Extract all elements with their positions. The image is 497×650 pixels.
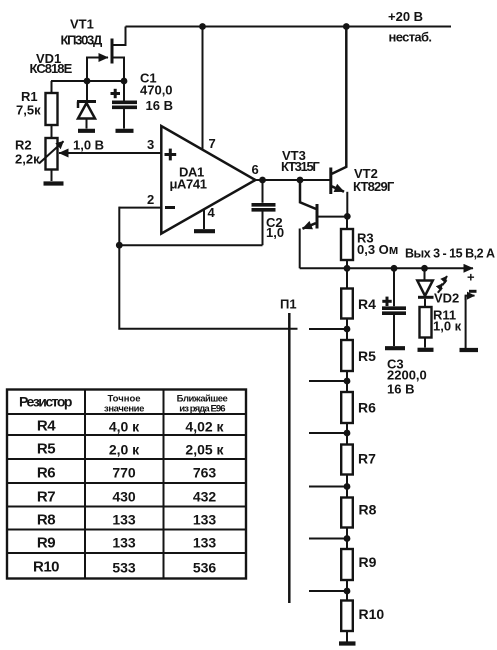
wire tap 1	[309, 328, 347, 330]
label R10	[359, 606, 385, 622]
label R4	[358, 296, 376, 312]
label R3	[357, 231, 374, 246]
svg-text:16 В: 16 В	[387, 382, 414, 397]
svg-text:КТ315Г: КТ315Г	[281, 159, 320, 174]
label VT1	[70, 17, 94, 32]
svg-text:1,0 В: 1,0 В	[73, 138, 104, 153]
label VT2	[354, 166, 378, 181]
svg-text:536: 536	[193, 560, 217, 576]
svg-text:R5: R5	[358, 348, 376, 364]
ground under R10	[339, 641, 356, 645]
wire tap 5	[309, 538, 347, 540]
value label uA741	[170, 176, 207, 191]
resistor R1	[46, 81, 58, 138]
value label 1,0	[266, 225, 284, 240]
node rail/VD2 junction	[421, 265, 428, 272]
table header Ближайшее из ряда Е96	[177, 394, 228, 415]
table row R6	[37, 465, 216, 482]
label R8	[359, 502, 377, 518]
label DA1	[179, 165, 204, 180]
svg-text:значение: значение	[104, 404, 144, 415]
value label 16 В (C3)	[387, 382, 414, 397]
svg-text:R6: R6	[358, 400, 376, 416]
node source/C1 junction	[121, 78, 128, 85]
svg-text:КП303Д: КП303Д	[61, 33, 103, 48]
value label 16 В	[146, 98, 173, 113]
ground under R2	[44, 181, 64, 185]
svg-text:2200,0: 2200,0	[387, 368, 427, 383]
label R11	[433, 308, 456, 323]
resistor R10	[341, 591, 353, 642]
svg-text:R4: R4	[37, 418, 56, 435]
label C1	[140, 71, 157, 86]
wire feedback down to switch	[119, 245, 297, 329]
resistor R5	[341, 329, 353, 381]
svg-text:133: 133	[112, 535, 136, 551]
svg-text:4,02 к: 4,02 к	[185, 419, 224, 435]
minus output terminal	[466, 291, 477, 348]
label R7	[358, 451, 376, 467]
label R1	[21, 89, 38, 104]
svg-text:R10: R10	[359, 606, 385, 622]
svg-text:из ряда Е96: из ряда Е96	[179, 404, 225, 415]
value label нестаб.	[389, 30, 432, 45]
svg-text:4: 4	[208, 205, 216, 220]
pin 6	[252, 162, 259, 177]
wire zener node rail	[51, 80, 124, 82]
label VD2	[434, 291, 459, 306]
op-amp DA1	[161, 126, 255, 234]
svg-text:R9: R9	[359, 554, 377, 570]
node rail/R4 junction	[344, 265, 351, 272]
svg-text:R6: R6	[37, 465, 55, 482]
svg-text:R7: R7	[358, 451, 376, 467]
svg-text:2: 2	[147, 192, 154, 207]
ground under VD1	[78, 129, 95, 133]
svg-text:133: 133	[112, 512, 136, 528]
ground under minus terminal	[460, 348, 479, 352]
value label +20 В	[388, 9, 423, 24]
table header Резистор	[19, 394, 72, 410]
svg-text:μA741: μA741	[170, 176, 207, 191]
table row R5	[37, 441, 225, 458]
svg-text:КС818Е: КС818Е	[30, 61, 73, 76]
node VT3 collector junction	[297, 177, 304, 184]
node tap R8/R9	[344, 535, 351, 542]
pin 7	[209, 136, 216, 151]
svg-text:R8: R8	[37, 512, 55, 529]
svg-text:Резистор: Резистор	[19, 394, 72, 410]
zener diode VD1	[77, 81, 96, 129]
capacitor C3	[382, 268, 406, 346]
wire +20V top rail	[126, 26, 452, 28]
value label КС818Е	[30, 61, 73, 76]
resistor R7	[341, 433, 353, 487]
svg-text:763: 763	[193, 465, 217, 481]
wire R2 wiper to pin 3	[59, 152, 161, 154]
capacitor C2	[252, 180, 276, 245]
label C3	[387, 357, 404, 372]
svg-text:4,0 к: 4,0 к	[109, 419, 140, 435]
transistor VT2	[331, 27, 348, 217]
label П1	[280, 297, 297, 312]
ground pin 4	[194, 229, 215, 233]
table row R9	[37, 535, 216, 552]
svg-text:7: 7	[209, 136, 216, 151]
svg-text:VT1: VT1	[70, 17, 94, 32]
svg-text:770: 770	[112, 465, 136, 481]
resistor R4	[341, 268, 353, 329]
svg-text:+20 В: +20 В	[388, 9, 423, 24]
svg-text:R2: R2	[15, 138, 32, 153]
svg-text:VD2: VD2	[434, 291, 459, 306]
node junction rail/VT2 collector	[343, 23, 350, 30]
value label 470,0	[140, 83, 173, 98]
node gate/VD1 junction	[84, 78, 91, 85]
label R2	[15, 138, 32, 153]
svg-text:2,2к: 2,2к	[15, 152, 40, 167]
LED VD2	[417, 268, 447, 297]
table row R4	[37, 418, 225, 435]
table resistor values	[7, 390, 246, 579]
value label 0,3 Ом	[357, 242, 398, 257]
wire feedback pin2 down	[118, 207, 120, 246]
resistor R2 (trimmer)	[39, 138, 64, 181]
value label 2200,0	[387, 368, 427, 383]
resistor R9	[341, 539, 353, 592]
switch П1 pole bar	[288, 313, 291, 603]
svg-text:1,0 к: 1,0 к	[433, 319, 462, 334]
node tap R4/R5	[344, 326, 351, 333]
svg-text:16 В: 16 В	[146, 98, 173, 113]
node pin6/C2 junction	[259, 177, 266, 184]
svg-text:нестаб.: нестаб.	[389, 30, 432, 45]
wire pin 6 to VT2 base	[255, 179, 330, 181]
svg-text:Вых 3 - 15 В,2 А: Вых 3 - 15 В,2 А	[405, 247, 495, 261]
resistor R8	[341, 487, 353, 539]
value label 7,5к	[16, 103, 41, 118]
svg-text:+: +	[467, 270, 475, 285]
svg-text:R5: R5	[37, 441, 55, 458]
ground under R11	[418, 348, 434, 352]
svg-text:КТ829Г: КТ829Г	[353, 179, 395, 194]
svg-text:R4: R4	[358, 296, 376, 312]
node tap R5/R6	[344, 378, 351, 385]
value label КТ315Г	[281, 159, 320, 174]
wire tap 6	[309, 590, 347, 592]
wire output rail	[300, 267, 473, 269]
pin 4	[208, 205, 216, 220]
ground under C3	[385, 346, 405, 350]
wire tap 2	[309, 380, 347, 382]
node tap R6/R7	[344, 430, 351, 437]
value label 1,0 к	[433, 319, 462, 334]
wire pin 2	[119, 207, 161, 209]
value label 1,0 В	[73, 138, 104, 153]
label + output	[467, 270, 475, 285]
value label КТ829Г	[353, 179, 395, 194]
node rail/C3 junction	[391, 265, 398, 272]
table row R7	[37, 489, 216, 506]
pin 3	[147, 137, 154, 152]
table header Точное значение	[104, 394, 144, 415]
label R5	[358, 348, 376, 364]
svg-text:470,0: 470,0	[140, 83, 173, 98]
node VT2 emitter / R3 junction	[344, 213, 351, 220]
svg-text:133: 133	[193, 535, 217, 551]
resistor R3	[341, 216, 353, 268]
wire tap 3	[309, 432, 347, 434]
label VD1	[36, 51, 61, 66]
svg-text:430: 430	[112, 489, 136, 505]
svg-text:R9: R9	[37, 535, 55, 552]
label C2	[266, 215, 283, 230]
svg-text:1,0: 1,0	[266, 225, 284, 240]
label VT3	[282, 148, 306, 163]
wire pin 4	[203, 209, 205, 230]
node tap R7/R8	[344, 483, 351, 490]
label R9	[359, 554, 377, 570]
ground under C1	[116, 129, 134, 133]
svg-text:R10: R10	[33, 559, 59, 576]
label Вых 3 - 15 В,2 А	[405, 247, 495, 261]
svg-text:7,5к: 7,5к	[16, 103, 41, 118]
pin 2	[147, 192, 154, 207]
svg-text:2,05 к: 2,05 к	[185, 442, 224, 458]
wire pin 7 to rail	[202, 27, 204, 151]
resistor R11	[420, 299, 432, 348]
transistor VT1	[87, 27, 126, 82]
svg-text:432: 432	[193, 489, 217, 505]
transistor VT3	[300, 180, 347, 268]
table row R8	[37, 512, 216, 529]
capacitor C1	[111, 81, 138, 129]
table row R10	[33, 559, 216, 576]
resistor R6	[341, 381, 353, 433]
svg-text:3: 3	[147, 137, 154, 152]
wire tap 4	[309, 486, 347, 488]
node junction rail/pin7	[199, 23, 206, 30]
node feedback junction	[116, 242, 123, 249]
svg-text:2,0 к: 2,0 к	[109, 442, 140, 458]
svg-text:6: 6	[252, 162, 259, 177]
svg-text:0,3 Ом: 0,3 Ом	[357, 242, 398, 257]
value label 2,2к	[15, 152, 40, 167]
svg-text:П1: П1	[280, 297, 297, 312]
value label КП303Д	[61, 33, 103, 48]
node tap R9/R10	[344, 588, 351, 595]
svg-text:133: 133	[193, 512, 217, 528]
svg-text:R8: R8	[359, 502, 377, 518]
wire feedback to C2	[119, 244, 262, 246]
svg-text:533: 533	[112, 560, 136, 576]
label R6	[358, 400, 376, 416]
svg-text:R7: R7	[37, 489, 55, 506]
